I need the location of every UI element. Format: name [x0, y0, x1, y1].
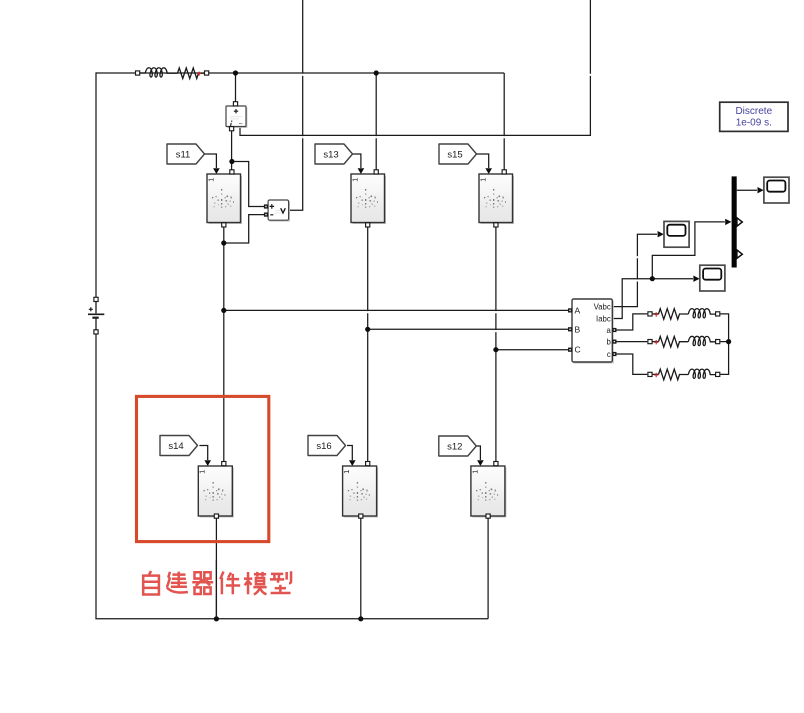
svg-text:Vabc: Vabc — [594, 303, 611, 312]
svg-text:1: 1 — [478, 178, 487, 182]
svg-text:1: 1 — [350, 178, 359, 182]
svg-text:s13: s13 — [323, 150, 338, 161]
svg-text:B: B — [575, 324, 581, 334]
svg-text:s14: s14 — [168, 441, 183, 452]
svg-text:A: A — [575, 305, 581, 315]
svg-text:s16: s16 — [316, 441, 331, 452]
svg-text:1: 1 — [198, 470, 207, 474]
svg-text:1: 1 — [206, 178, 215, 182]
svg-text:1: 1 — [470, 470, 479, 474]
svg-text:C: C — [575, 345, 581, 355]
svg-text:Discrete: Discrete — [735, 106, 772, 117]
svg-text:b: b — [606, 338, 611, 347]
svg-text:s12: s12 — [447, 442, 462, 453]
svg-text:s15: s15 — [447, 150, 462, 161]
svg-text:a: a — [606, 326, 611, 335]
svg-text:s11: s11 — [176, 150, 191, 161]
svg-text:1e-09 s.: 1e-09 s. — [736, 118, 772, 129]
svg-text:Iabc: Iabc — [596, 315, 611, 324]
svg-text:1: 1 — [342, 470, 351, 474]
svg-text:c: c — [607, 350, 611, 359]
